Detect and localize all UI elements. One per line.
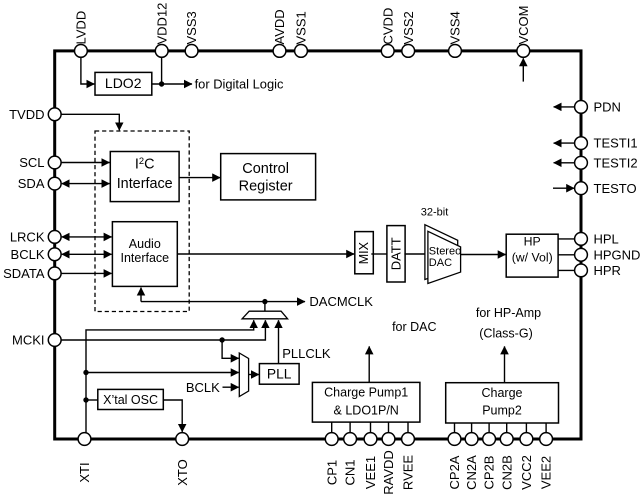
pin CVDD (380, 8, 395, 58)
pin VSS4 (448, 11, 463, 57)
mux pll trapezoid (239, 353, 248, 397)
pin HPGND (575, 247, 641, 262)
pin VSS2 (401, 11, 416, 57)
svg-text:SDATA: SDATA (3, 266, 45, 281)
svg-text:VSS2: VSS2 (401, 11, 416, 44)
junction dot Xtal (83, 397, 88, 402)
stub CN2A (471, 423, 473, 433)
wire Xtal OSC to XTO (163, 400, 182, 432)
wire SDATA (61, 272, 111, 274)
block Charge Pump2 (446, 383, 559, 423)
pin SDATA (3, 266, 61, 281)
svg-text:Audio: Audio (129, 237, 161, 251)
block PLL (259, 364, 299, 385)
pin XTI (77, 433, 92, 483)
svg-text:I2C: I2C (135, 156, 155, 173)
wire VDD12 drop (161, 56, 163, 84)
wire LVDD to LDO2 (81, 56, 95, 84)
stub VEE2 (545, 423, 547, 433)
svg-text:Charge Pump1: Charge Pump1 (324, 386, 408, 400)
pin AVDD (272, 9, 287, 57)
wire PLLCLK to clock mux (278, 320, 280, 363)
svg-text:HPL: HPL (594, 232, 619, 247)
svg-text:BCLK: BCLK (186, 380, 220, 395)
svg-text:CP2B: CP2B (482, 456, 497, 490)
pin VSS3 (184, 11, 199, 57)
pin VDD12 (154, 3, 169, 58)
svg-text:VCOM: VCOM (516, 6, 531, 45)
pin VEE2 (539, 433, 554, 490)
svg-text:LVDD: LVDD (74, 11, 89, 45)
svg-text:CN2B: CN2B (499, 455, 514, 490)
svg-text:VDD12: VDD12 (154, 3, 169, 45)
svg-text:Interface: Interface (117, 176, 173, 192)
svg-text:PDN: PDN (594, 100, 621, 115)
block Charge Pump1 (312, 382, 420, 422)
wire pll mux to PLL (249, 374, 259, 376)
svg-text:PLL: PLL (267, 367, 292, 382)
svg-text:MCKI: MCKI (12, 333, 45, 348)
wire XTI riser to clock mux (86, 320, 254, 433)
dac back shape (425, 225, 458, 280)
pin CP2B (482, 433, 497, 490)
svg-text:CP1: CP1 (324, 460, 339, 485)
pin HPR (575, 263, 621, 278)
svg-text:Register: Register (239, 178, 293, 194)
svg-text:32-bit: 32-bit (421, 207, 449, 219)
wire TVDD to digital block (61, 114, 119, 130)
wire Charge Pump1 arrow (368, 346, 370, 382)
svg-text:VCC2: VCC2 (519, 455, 534, 490)
pin TESTI1 (575, 136, 638, 151)
svg-text:VSS3: VSS3 (184, 11, 199, 44)
svg-text:RVEE: RVEE (401, 455, 416, 490)
junction dot DACMCLK (262, 299, 267, 304)
wire TESTI1 arrow (554, 142, 575, 144)
svg-text:BCLK: BCLK (11, 247, 45, 262)
stub CP1 (331, 422, 333, 433)
svg-text:HP: HP (524, 234, 541, 248)
svg-text:Charge: Charge (482, 386, 523, 400)
svg-text:& LDO1P/N: & LDO1P/N (334, 403, 399, 417)
svg-text:SCL: SCL (19, 155, 44, 170)
svg-text:CP2A: CP2A (447, 455, 462, 489)
block I2C Interface (110, 152, 179, 202)
pin VCC2 (519, 433, 534, 490)
pin MCKI (12, 333, 61, 348)
svg-text:LDO2: LDO2 (105, 75, 142, 91)
pin PDN (575, 100, 621, 115)
stub VCC2 (525, 423, 527, 433)
wire MCKI to clock mux (61, 320, 265, 340)
svg-text:CN1: CN1 (343, 459, 358, 485)
stub CP2B (488, 423, 490, 433)
svg-text:AVDD: AVDD (272, 9, 287, 44)
wire TESTO arrow (553, 187, 574, 189)
wire HP to HPR (558, 269, 574, 271)
svg-text:CN2A: CN2A (464, 455, 479, 490)
pin CP1 (324, 433, 339, 486)
wire LRCK (62, 236, 112, 238)
wire clock mux output (264, 302, 266, 312)
svg-text:HPR: HPR (594, 263, 621, 278)
block Stereo DAC (428, 231, 461, 283)
pin RAVDD (381, 433, 396, 495)
svg-text:VEE1: VEE1 (363, 456, 378, 489)
mux clock trapezoid (242, 311, 288, 319)
svg-text:TESTO: TESTO (594, 181, 637, 196)
block Xtal OSC (98, 389, 164, 409)
svg-text:LRCK: LRCK (10, 230, 45, 245)
svg-text:MIX: MIX (357, 241, 371, 264)
pin HPL (575, 232, 619, 247)
wire SDA (62, 183, 110, 185)
pin CN2A (464, 433, 479, 490)
svg-text:TESTI1: TESTI1 (594, 136, 638, 151)
pin LVDD (74, 11, 89, 58)
stub RAVDD (388, 422, 390, 433)
stub CN2B (506, 423, 508, 433)
wire DAC to HP (461, 254, 506, 256)
block Control Register (221, 154, 316, 200)
svg-text:for Digital Logic: for Digital Logic (195, 76, 284, 91)
svg-text:X’tal OSC: X’tal OSC (103, 393, 158, 407)
wire riser to Xtal OSC (86, 399, 98, 401)
wire riser branch to pll mux (86, 372, 239, 374)
svg-text:(Class-G): (Class-G) (479, 327, 532, 341)
svg-text:Interface: Interface (120, 251, 169, 265)
svg-text:TVDD: TVDD (9, 107, 44, 122)
pin BCLK (11, 247, 62, 262)
svg-text:VSS4: VSS4 (448, 11, 463, 44)
wire Charge Pump2 arrow (504, 346, 506, 382)
pin SCL (19, 155, 61, 170)
svg-text:for HP-Amp: for HP-Amp (476, 306, 541, 320)
svg-text:RAVDD: RAVDD (381, 450, 396, 495)
stub RVEE (407, 422, 409, 433)
svg-text:HPGND: HPGND (594, 247, 641, 262)
wire VCOM arrow (522, 58, 524, 81)
wire DACMCLK horizontal (141, 301, 305, 303)
stub CP2A (454, 423, 456, 433)
svg-text:Pump2: Pump2 (482, 404, 522, 418)
svg-text:DACMCLK: DACMCLK (309, 294, 373, 309)
block MIX (355, 232, 374, 274)
block LDO2 (95, 72, 152, 95)
junction dot MCKI (219, 337, 224, 342)
wire Audio to MIX (177, 253, 354, 255)
svg-text:XTO: XTO (175, 459, 190, 486)
wire BCLK (62, 253, 112, 255)
block DATT (387, 226, 405, 282)
pin TESTO (575, 181, 637, 196)
stub CN1 (349, 422, 351, 433)
svg-text:DAC: DAC (429, 257, 452, 269)
pin TVDD (9, 107, 61, 122)
svg-text:Stereo: Stereo (429, 245, 461, 257)
block Audio Interface (112, 222, 177, 287)
wire HP to HPGND (558, 254, 574, 256)
svg-text:for DAC: for DAC (392, 320, 436, 334)
wire LDO2 output (152, 83, 192, 85)
junction dot riser branch (83, 370, 88, 375)
svg-text:PLLCLK: PLLCLK (282, 346, 331, 361)
pin XTO (175, 433, 190, 486)
svg-text:DATT: DATT (389, 237, 404, 270)
wire TESTI2 arrow (554, 162, 575, 164)
wire PDN arrow (554, 106, 575, 108)
wire HP to HPL (558, 238, 574, 240)
svg-text:TESTI2: TESTI2 (594, 155, 638, 170)
wire DACMCLK vertical into Audio (140, 288, 142, 302)
pin LRCK (10, 230, 61, 245)
pin VCOM (516, 6, 531, 58)
pin RVEE (401, 433, 416, 490)
svg-text:SDA: SDA (18, 176, 45, 191)
svg-text:VSS1: VSS1 (294, 11, 309, 44)
wire I2C to Control Register (179, 177, 220, 179)
wire DATT to DAC (404, 253, 426, 255)
svg-text:Control: Control (242, 161, 289, 177)
svg-text:(w/ Vol): (w/ Vol) (512, 251, 553, 265)
chip outline (55, 51, 581, 439)
pin CN2B (499, 433, 514, 490)
stub VEE1 (370, 422, 372, 433)
svg-text:XTI: XTI (77, 462, 92, 482)
pin CN1 (343, 433, 358, 486)
pin VSS1 (294, 11, 309, 57)
dashed digital block (95, 131, 189, 312)
pin VEE1 (363, 433, 378, 490)
junction dot LDO2 output (159, 81, 164, 86)
wire MCKI branch to pll mux (222, 340, 239, 358)
wire SCL (61, 162, 109, 164)
svg-text:CVDD: CVDD (380, 8, 395, 45)
svg-text:VEE2: VEE2 (539, 456, 554, 489)
pin SDA (18, 176, 61, 191)
wire BCLK to pll mux (223, 386, 239, 388)
wire MIX to DATT (371, 253, 387, 255)
pin CP2A (447, 433, 462, 490)
block HP (506, 234, 558, 277)
pin TESTI2 (575, 155, 638, 170)
